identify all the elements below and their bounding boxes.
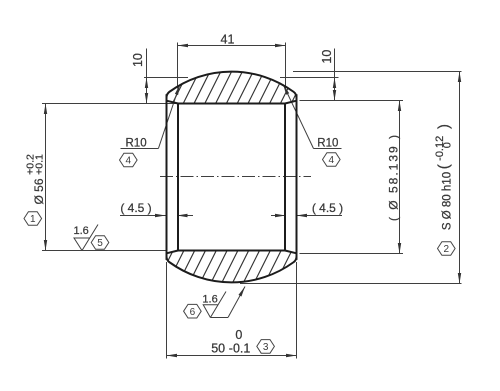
svg-text:( Ø 58.139 ): ( Ø 58.139 ) bbox=[386, 133, 400, 221]
svg-text:6: 6 bbox=[190, 307, 196, 318]
svg-text:41: 41 bbox=[221, 33, 235, 47]
svg-text:S Ø 80 h10: S Ø 80 h10 bbox=[442, 172, 454, 230]
svg-text:1.6: 1.6 bbox=[74, 225, 89, 237]
svg-text:+0.2: +0.2 bbox=[25, 154, 37, 175]
svg-text:0: 0 bbox=[235, 328, 242, 342]
svg-text:4: 4 bbox=[126, 156, 132, 167]
svg-text:( 4.5 ): ( 4.5 ) bbox=[312, 201, 343, 215]
svg-text:R10: R10 bbox=[317, 137, 338, 149]
svg-text:1.6: 1.6 bbox=[202, 293, 217, 305]
svg-text:( 4.5 ): ( 4.5 ) bbox=[120, 201, 151, 215]
svg-text:4: 4 bbox=[329, 155, 335, 166]
svg-text:5: 5 bbox=[97, 238, 103, 249]
svg-text:): ) bbox=[436, 124, 453, 129]
svg-text:-0.1: -0.1 bbox=[229, 341, 251, 355]
svg-text:Ø 56: Ø 56 bbox=[32, 178, 46, 204]
svg-text:R10: R10 bbox=[126, 137, 147, 149]
svg-text:-0.12: -0.12 bbox=[434, 136, 446, 161]
svg-text:10: 10 bbox=[320, 50, 334, 64]
svg-text:1: 1 bbox=[30, 214, 36, 225]
svg-text:(: ( bbox=[436, 164, 453, 169]
svg-text:2: 2 bbox=[444, 244, 450, 255]
svg-text:50: 50 bbox=[211, 341, 225, 355]
svg-text:10: 10 bbox=[131, 53, 145, 67]
svg-text:3: 3 bbox=[263, 342, 269, 353]
